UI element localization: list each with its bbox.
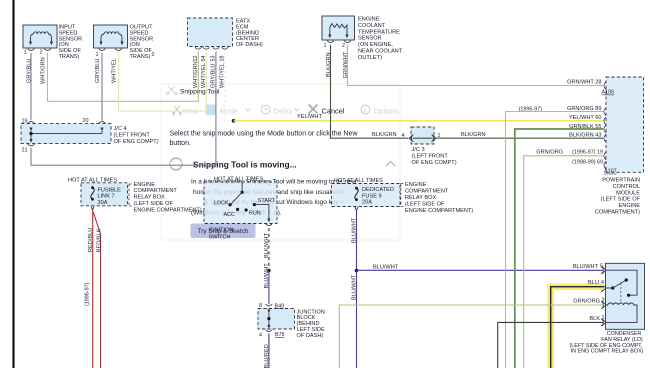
svg-text:(LEFT SIDE OF: (LEFT SIDE OF — [601, 197, 641, 203]
svg-text:19: 19 — [22, 118, 28, 124]
wire GRY/BLU input sensor pin1 to J/C4 pin19 — [26, 53, 32, 121]
wire BLU/RED junction block down — [264, 334, 270, 368]
svg-text:(LEFT SIDE OF: (LEFT SIDE OF — [134, 201, 174, 207]
pin 2 output sensor (displaced label) — [115, 49, 154, 58]
J/C4 internal bus — [29, 131, 102, 143]
svg-text:FUSIBLE: FUSIBLE — [98, 188, 122, 194]
wire BLK/GRN J/C3 pin1 to PCM pin43 — [436, 132, 603, 138]
svg-text:(1998-99) 69: (1998-99) 69 — [572, 159, 603, 165]
svg-text:ACC: ACC — [224, 212, 235, 218]
PCM pin 89 — [519, 106, 607, 116]
input speed sensor — [23, 25, 82, 61]
svg-text:ENGINE: ENGINE — [358, 17, 380, 23]
svg-text:BLK/WHT: BLK/WHT — [264, 233, 270, 258]
wire GRY/BLU ECM pin53 to J/C4 pin21 — [31, 52, 216, 166]
svg-text:J/C 4: J/C 4 — [114, 126, 127, 132]
relay pin 5 — [573, 264, 606, 274]
svg-text:2: 2 — [40, 50, 43, 56]
svg-text:4: 4 — [402, 133, 405, 139]
toolbar: New — [173, 106, 182, 115]
svg-text:WHT/GRN: WHT/GRN — [40, 57, 46, 84]
svg-text:ENGINE: ENGINE — [134, 182, 156, 188]
svg-text:21: 21 — [22, 148, 28, 154]
J/C4 pin 21 — [22, 144, 35, 154]
svg-text:OF ENG COMPT): OF ENG COMPT) — [114, 139, 159, 145]
coolant sensor pin 2 — [342, 41, 351, 49]
svg-text:BLU/WHT: BLU/WHT — [573, 264, 599, 270]
svg-text:GRY/BLU: GRY/BLU — [26, 59, 32, 83]
svg-text:FUSE 9: FUSE 9 — [362, 193, 382, 199]
node splice BLK/WHT-BLU/WHT — [267, 269, 271, 273]
wire BLU/WHT node to condenser fan relay pin5 — [357, 264, 604, 270]
wire GRY/BLU output sensor pin1 to J/C4 pin20 — [95, 53, 102, 121]
wire WHT/YEL output sensor pin2 to EATX ECM pin54 — [111, 52, 206, 112]
J/C3 pin 4 — [409, 135, 413, 142]
wire BLU/WHT node down — [352, 271, 358, 368]
wire BLU/WHT fuse9 down to node — [352, 211, 358, 271]
svg-text:OF DASH): OF DASH) — [297, 333, 324, 339]
svg-text:BLU: BLU — [588, 280, 599, 286]
svg-text:IGNITION: IGNITION — [209, 228, 234, 234]
svg-text:20A: 20A — [362, 200, 372, 206]
svg-text:GRN/WHT 28: GRN/WHT 28 — [567, 80, 601, 86]
svg-text:ENGINE COMPARTMENT): ENGINE COMPARTMENT) — [134, 207, 202, 213]
svg-text:YEL/WHT 60: YEL/WHT 60 — [569, 115, 602, 121]
svg-text:1: 1 — [324, 43, 327, 49]
svg-text:B49: B49 — [275, 303, 285, 309]
wire BLK relay pin1 — [498, 322, 604, 368]
condenser fan relay box — [570, 263, 645, 354]
svg-text:GRN/ORG: GRN/ORG — [536, 150, 563, 156]
svg-text:COMPARTMENT): COMPARTMENT) — [595, 210, 640, 216]
svg-text:(ON ENGINE,: (ON ENGINE, — [358, 42, 393, 48]
svg-text:(LEFT FRONT: (LEFT FRONT — [412, 153, 449, 159]
svg-text:B75: B75 — [275, 332, 285, 338]
svg-text:DEDICATED: DEDICATED — [362, 187, 394, 193]
snipping tool overlay window — [161, 84, 400, 240]
svg-text:20: 20 — [83, 118, 89, 124]
PCM pin 60 — [569, 115, 606, 125]
svg-text:BLK/GRN: BLK/GRN — [461, 132, 486, 138]
svg-text:GRY/BLU: GRY/BLU — [95, 59, 101, 83]
fusible link 7 box (engine compartment relay box) — [68, 177, 128, 206]
wire internal J/C3 — [413, 137, 433, 139]
svg-text:RUN: RUN — [249, 210, 261, 216]
svg-text:ENGINE COMPARTMENT): ENGINE COMPARTMENT) — [405, 208, 473, 214]
svg-text:NEAR COOLANT: NEAR COOLANT — [358, 49, 403, 55]
ignition switch output pin — [266, 224, 273, 226]
svg-text:Options: Options — [374, 107, 400, 116]
svg-text:button.: button. — [170, 140, 191, 147]
svg-text:12: 12 — [193, 56, 199, 62]
wire GRN/ORG vertical pin89 — [505, 112, 507, 368]
coolant sensor pin 1 — [324, 41, 334, 49]
svg-text:WHT/YEL: WHT/YEL — [201, 63, 207, 88]
wire BLK/GRN coolant pin1 to J/C3 pin4 — [326, 45, 409, 139]
svg-text:SENSOR: SENSOR — [358, 36, 382, 42]
svg-text:HOT AT ALL TIMES: HOT AT ALL TIMES — [214, 176, 263, 182]
wire GRN/WHT coolant pin2 to PCM pin28 — [343, 45, 603, 86]
svg-text:Mode: Mode — [220, 107, 239, 116]
svg-text:J/C 3: J/C 3 — [412, 147, 425, 153]
moving notice icon — [170, 158, 183, 171]
wire YEL/WHT to PCM pin60 — [234, 114, 604, 121]
ECM pin 53 — [211, 47, 220, 88]
title bar icon — [166, 86, 177, 95]
wire RED/BLK fusible link down — [85, 212, 103, 368]
ECM pin 12 — [193, 47, 202, 88]
svg-text:START: START — [258, 198, 276, 204]
svg-text:ENGINE: ENGINE — [619, 203, 641, 209]
svg-text:BLU/WHT: BLU/WHT — [373, 264, 399, 270]
wire BLK/WHT ignition switch down — [264, 228, 270, 271]
wire RED/BLU fusible link down — [88, 210, 94, 368]
svg-text:TEMPERATURE: TEMPERATURE — [358, 29, 400, 35]
svg-text:A107: A107 — [604, 169, 617, 175]
engine compartment relay box label (fusible link) — [129, 182, 202, 214]
svg-text:TRANS): TRANS) — [59, 54, 80, 60]
svg-text:BLK/GRN 43: BLK/GRN 43 — [569, 133, 601, 139]
svg-text:BLK: BLK — [589, 316, 600, 322]
J/C3 pin 1 — [432, 133, 441, 142]
svg-text:(1996-97) 19: (1996-97) 19 — [572, 150, 603, 156]
relay internal switch — [606, 270, 637, 303]
svg-text:OF DASH): OF DASH) — [236, 42, 263, 48]
toolbar: Options — [361, 105, 370, 114]
toolbar: Mode — [206, 105, 217, 116]
svg-text:COOLANT: COOLANT — [358, 23, 386, 29]
svg-text:4: 4 — [259, 332, 262, 338]
svg-text:MODULE: MODULE — [616, 190, 640, 196]
svg-text:RELAY BOX: RELAY BOX — [134, 195, 165, 201]
dedicated fuse 9 symbol — [355, 187, 358, 201]
svg-text:ENGINE: ENGINE — [405, 182, 427, 188]
svg-text:IN ENG COMPT RELAY BOX): IN ENG COMPT RELAY BOX) — [571, 349, 644, 355]
relay pin 3 — [573, 297, 606, 309]
wire GRN/ORG relay pin3 — [339, 305, 603, 368]
svg-text:Cancel: Cancel — [322, 107, 345, 116]
wire GRN/ORG PCM pin19 down — [524, 156, 603, 368]
fusible link 7 symbol — [91, 186, 94, 200]
svg-text:Snipping Tool is moving...: Snipping Tool is moving... — [193, 160, 297, 170]
J/C4 pin 20 — [83, 118, 106, 131]
svg-text:POWERTRAIN: POWERTRAIN — [602, 178, 640, 184]
node junction BLU/WHT — [355, 269, 359, 273]
svg-text:OF ENG COMPT): OF ENG COMPT) — [412, 160, 457, 166]
PCM pin 43 — [569, 133, 606, 143]
svg-text:8: 8 — [259, 303, 262, 309]
ignition switch — [204, 176, 277, 240]
relay internal coil — [606, 303, 637, 322]
ignition switch contacts — [214, 182, 276, 222]
svg-text:RED/BLU: RED/BLU — [88, 228, 94, 252]
svg-text:Snipping Tool: Snipping Tool — [180, 89, 220, 96]
svg-text:OUTLET): OUTLET) — [358, 55, 382, 61]
wire BLU/WHT splice to junction block pin8 — [264, 263, 270, 304]
powertrain control module — [595, 77, 644, 216]
svg-text:WHT/YEL: WHT/YEL — [111, 58, 117, 83]
node junction YEL/WHT — [232, 119, 236, 123]
toolbar: Cancel — [309, 105, 318, 114]
svg-text:SWITCH: SWITCH — [209, 235, 231, 241]
ECM pin 18 — [220, 47, 229, 88]
svg-text:BLU/RED: BLU/RED — [264, 344, 270, 368]
wire GRN/BLK PCM pin55 down — [515, 129, 603, 368]
svg-text:GRN/WHT: GRN/WHT — [343, 51, 349, 78]
junction block pin 4 B75 — [259, 330, 285, 339]
ECM pin 54 — [201, 47, 210, 88]
svg-text:2: 2 — [342, 43, 345, 49]
wire GRN/ORG PCM pin89 down — [506, 111, 604, 113]
svg-text:A106: A106 — [602, 90, 615, 96]
svg-text:(LEFT FRONT: (LEFT FRONT — [114, 132, 151, 138]
svg-text:WHT/GRN: WHT/GRN — [193, 61, 199, 88]
junction connector J/C 3 — [411, 127, 457, 166]
try snip & sketch button — [191, 224, 256, 239]
relay pin 4 — [601, 280, 606, 292]
PCM pin 28 — [567, 80, 614, 96]
svg-text:BLK/GRN: BLK/GRN — [326, 52, 332, 77]
wire BLU highlighted to relay pin4 — [551, 280, 604, 368]
junction block pin 8 B49 — [259, 303, 284, 313]
svg-text:TRANS): TRANS) — [130, 54, 151, 60]
svg-text:(LEFT SIDE OF: (LEFT SIDE OF — [405, 201, 445, 207]
svg-text:LINK 7: LINK 7 — [98, 194, 115, 200]
pin 1 input sensor — [24, 49, 34, 56]
svg-text:RELAY BOX: RELAY BOX — [405, 195, 436, 201]
engine compartment relay box label (fuse 9) — [401, 182, 473, 214]
junction block internal — [267, 313, 270, 329]
svg-text:LOCK: LOCK — [214, 200, 229, 206]
dedicated fuse 9 box — [332, 178, 401, 207]
svg-text:BLU/WHT: BLU/WHT — [264, 263, 270, 289]
svg-text:RED/BLK: RED/BLK — [96, 228, 102, 252]
svg-text:30A: 30A — [98, 200, 108, 206]
pin 1 output sensor — [96, 49, 106, 58]
junction block — [258, 309, 325, 339]
PCM pin 19/69 — [536, 150, 616, 175]
svg-text:COMPARTMENT: COMPARTMENT — [134, 188, 178, 194]
fusible link output pin — [91, 206, 94, 210]
EATX ECM — [188, 18, 263, 48]
svg-text:2: 2 — [152, 52, 155, 58]
svg-text:CONTROL: CONTROL — [613, 184, 640, 190]
svg-text:BLK/GRN: BLK/GRN — [372, 132, 397, 138]
svg-text:i: i — [364, 107, 365, 114]
relay pin 1 — [589, 315, 605, 326]
pin 2 input sensor — [40, 49, 51, 56]
svg-text:BLU/WHT: BLU/WHT — [352, 217, 358, 243]
wire WHT/YEL ECM pin18 down — [225, 52, 234, 121]
page border — [12, 0, 14, 368]
svg-text:Delay: Delay — [274, 107, 293, 116]
svg-text:BLU/WHT: BLU/WHT — [352, 274, 358, 300]
toolbar: Delay — [261, 105, 270, 114]
svg-text:COMPARTMENT: COMPARTMENT — [405, 189, 449, 195]
svg-text:GRN/ORG 89: GRN/ORG 89 — [567, 106, 602, 112]
svg-text:(1996-97): (1996-97) — [85, 282, 91, 306]
svg-text:54: 54 — [201, 56, 207, 62]
engine coolant temperature sensor — [322, 16, 403, 61]
fuse 9 output pin — [355, 207, 358, 211]
J/C4 pin 19 — [22, 118, 35, 131]
junction connector J/C 4 — [21, 124, 159, 145]
svg-text:1: 1 — [24, 50, 27, 56]
svg-text:YEL/WHT: YEL/WHT — [297, 114, 322, 120]
output speed sensor — [94, 25, 154, 61]
svg-text:1: 1 — [96, 52, 99, 58]
svg-text:GRN/ORG: GRN/ORG — [573, 298, 600, 304]
wire WHT/GRN input sensor pin2 to EATX ECM pin12 — [40, 52, 198, 102]
PCM pin 55 — [569, 124, 606, 133]
